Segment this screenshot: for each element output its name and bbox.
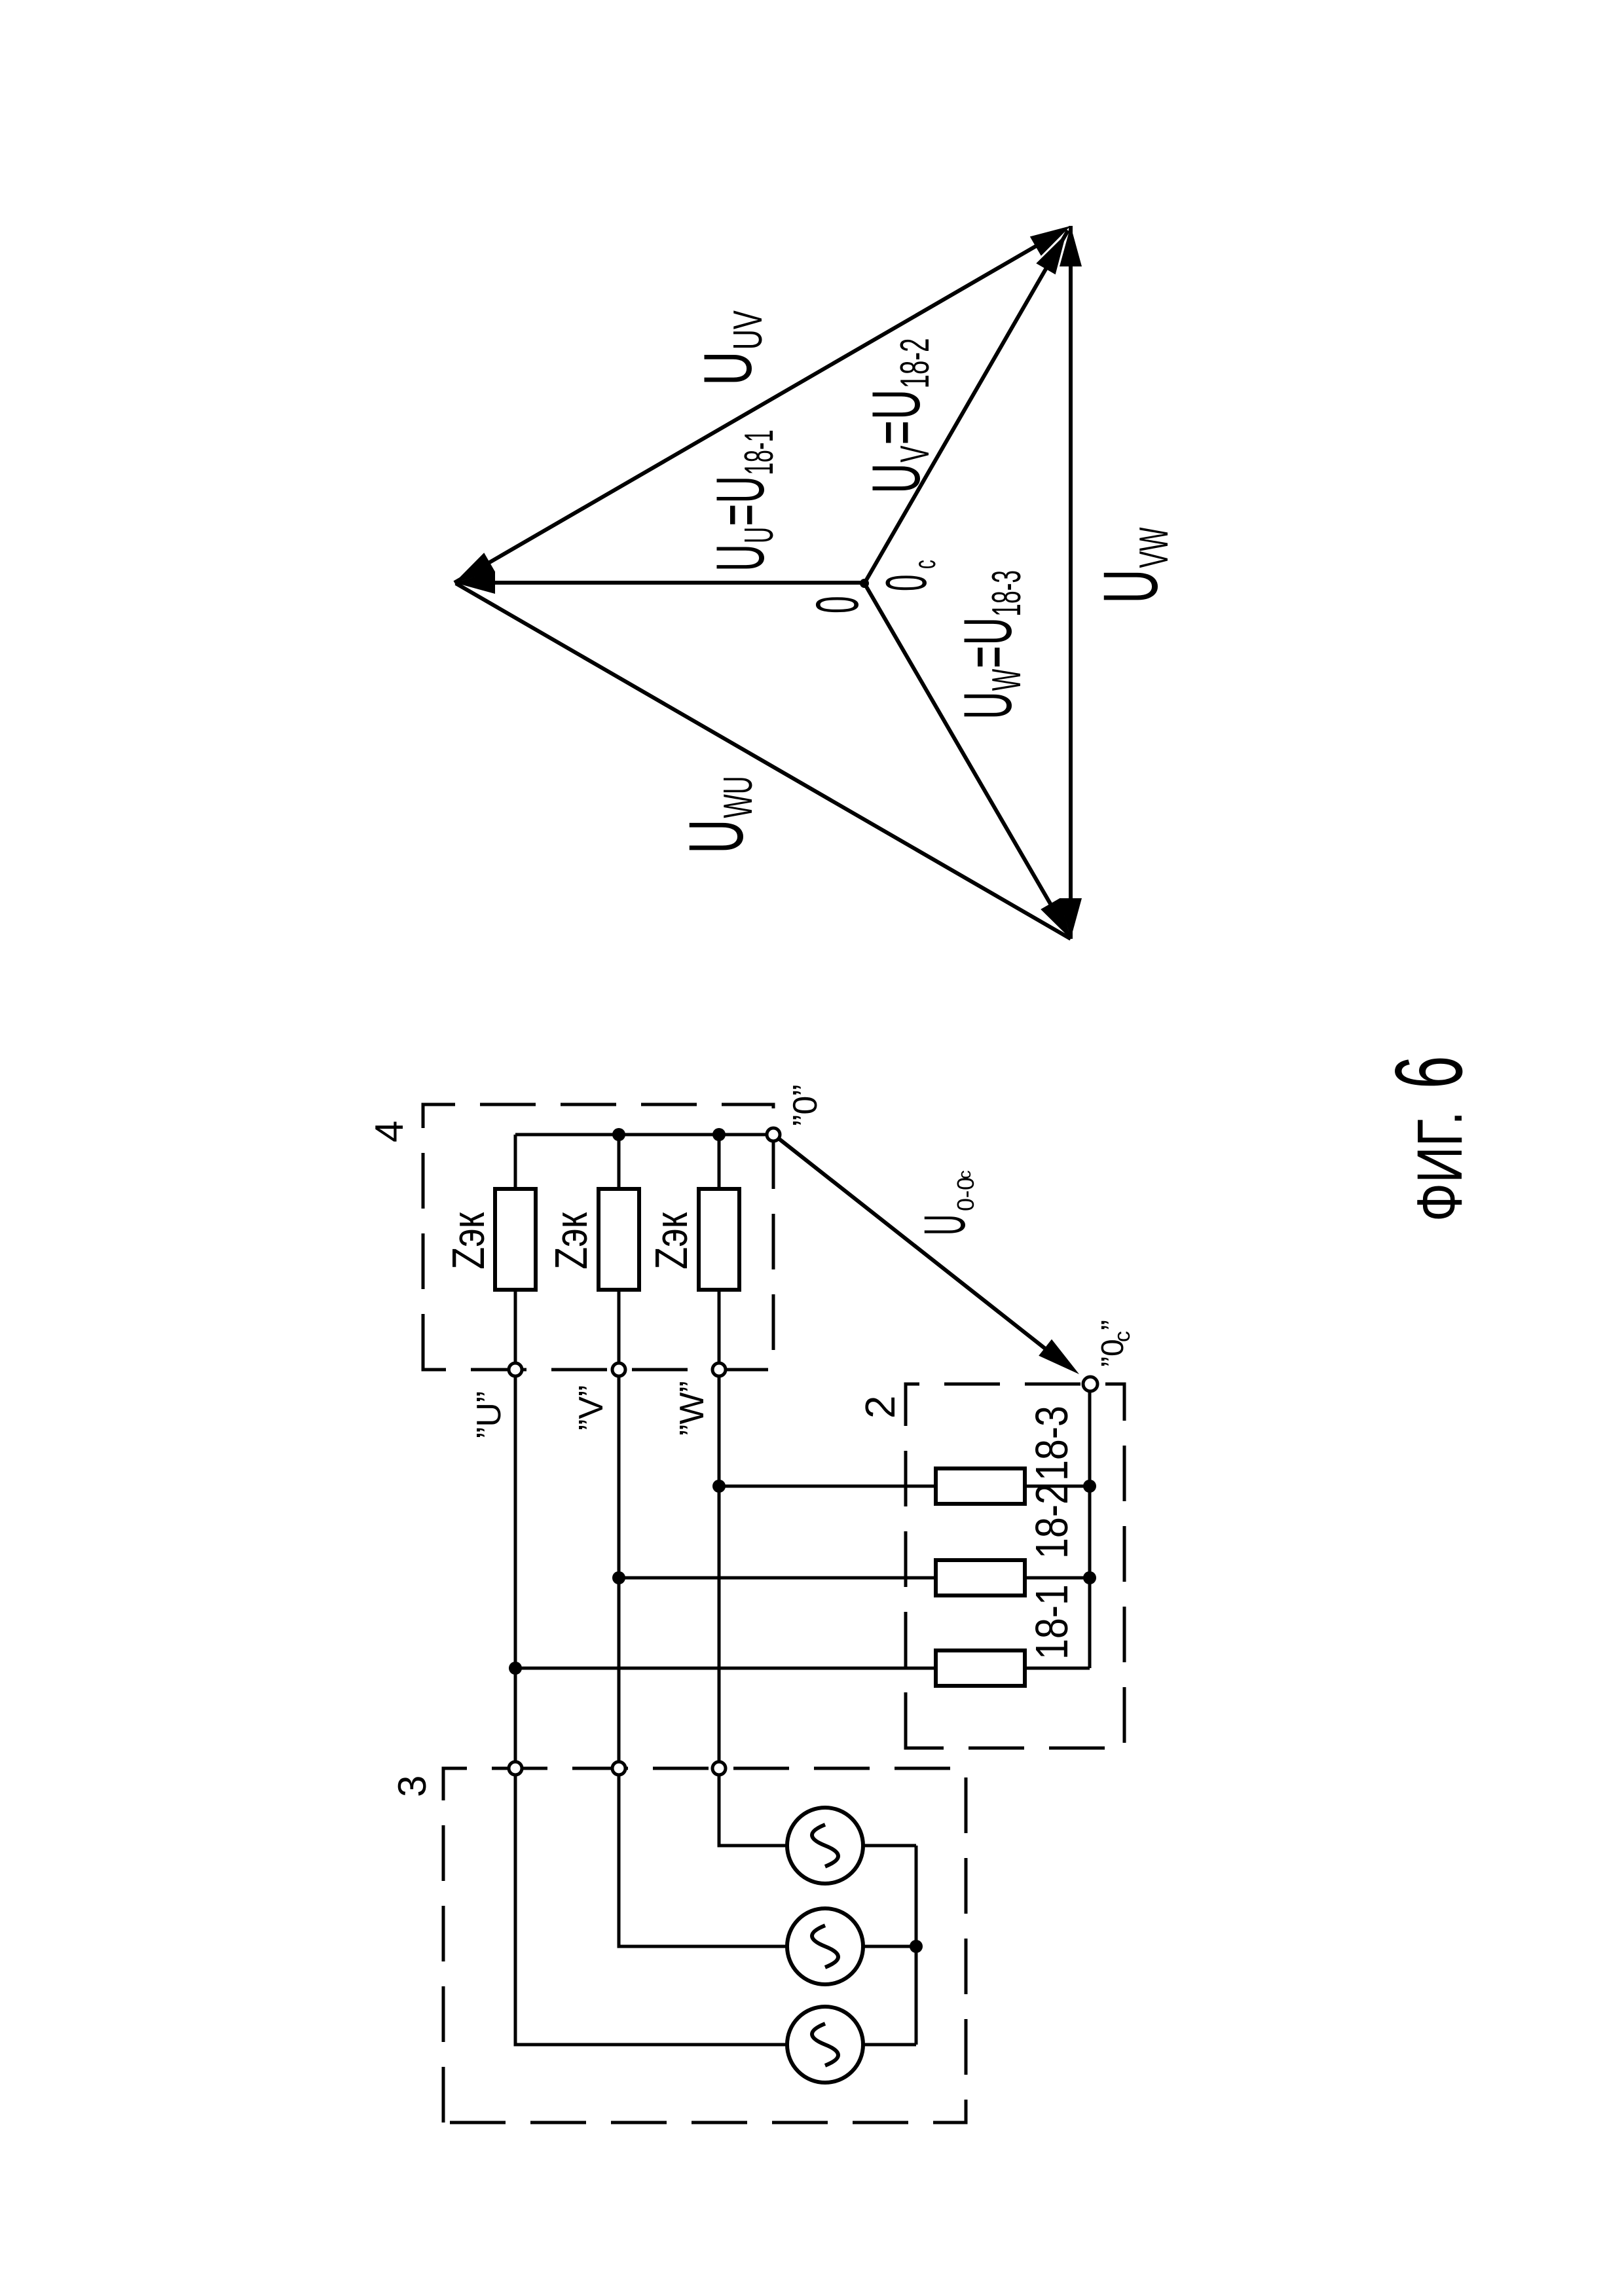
svg-text:U: U [949, 691, 1025, 720]
terminal "V" on box 4 [612, 1363, 625, 1376]
wire rail W [718, 1376, 721, 1762]
label Zek3 [646, 1212, 697, 1269]
svg-text:18-1: 18-1 [736, 429, 781, 475]
svg-text:6: 6 [1375, 1056, 1482, 1089]
svg-text:0: 0 [803, 596, 871, 613]
wire vector U_WU (C to A) [456, 583, 1071, 939]
wire source G1 to rail U [515, 1776, 787, 2045]
wire vector U_UV (A to B) [454, 230, 1064, 583]
node label 0 [803, 596, 871, 613]
wire neutral stub G2 [863, 1945, 916, 1948]
resistor 18-2 [936, 1560, 1025, 1595]
svg-text:c: c [955, 1171, 974, 1180]
resistor 18-1 [936, 1650, 1025, 1686]
resistor 18-3 [936, 1468, 1025, 1504]
wire neutral stub G3 [863, 1844, 916, 1848]
dashed box 4 (equivalent load block) [423, 1104, 773, 1370]
wire branch 18-1 upper [515, 1667, 936, 1670]
label U_UV [690, 310, 771, 386]
svg-text:WU: WU [715, 776, 761, 818]
terminal V on box 3 [612, 1762, 625, 1775]
svg-text:18-3: 18-3 [1026, 1406, 1078, 1481]
resistor Zek1 [495, 1189, 536, 1290]
junction bus-W [712, 1128, 726, 1141]
svg-text:U: U [912, 1214, 977, 1235]
svg-text:W: W [983, 668, 1029, 691]
wire neutral bus of source block [915, 1846, 918, 2045]
label 18-1 [1026, 1584, 1078, 1660]
AC source G3 (phase W) [787, 1808, 863, 1884]
svg-text:0: 0 [874, 575, 938, 591]
svg-text:U: U [702, 476, 778, 503]
wire branch 18-2 upper [619, 1576, 936, 1580]
wire device common bus [1088, 1390, 1092, 1668]
svg-text:Zэк: Zэк [646, 1212, 697, 1269]
node O (system neutral 0 / artificial neutral 0c) [860, 579, 869, 588]
svg-text:=: = [858, 420, 934, 445]
terminal "U" on box 4 [509, 1363, 522, 1376]
svg-text:”0: ”0 [1096, 1339, 1130, 1367]
svg-text:V: V [892, 445, 938, 462]
svg-text:U: U [736, 527, 781, 543]
wire source G2 to rail V [619, 1776, 787, 1946]
label U_W=U_18-3 [949, 570, 1029, 720]
svg-text:U: U [858, 463, 934, 494]
arrowhead of U_V at B [1036, 234, 1066, 274]
wire load neutral bus [515, 1133, 767, 1137]
terminal U on box 3 [509, 1762, 522, 1775]
svg-text:Zэк: Zэк [546, 1212, 597, 1269]
arrowhead of U_VW at C [1060, 898, 1082, 939]
wire vector U_U = U_18-1 (O to A) [458, 581, 864, 585]
svg-text:0-0: 0-0 [952, 1177, 979, 1211]
wire branch 18-2 lower [1025, 1576, 1090, 1580]
svg-text:VW: VW [1131, 527, 1177, 568]
svg-text:U: U [673, 819, 759, 854]
label 18-3 [1026, 1406, 1078, 1481]
svg-text:U: U [1087, 569, 1173, 604]
svg-text:2: 2 [857, 1395, 904, 1419]
svg-text:3: 3 [390, 1776, 434, 1797]
label U_U=U_18-1 [702, 429, 781, 572]
node "0c" terminal [1083, 1377, 1098, 1391]
arrowhead of U_UV at B [1030, 226, 1071, 256]
svg-text:U: U [949, 617, 1025, 646]
wire rail U [514, 1376, 517, 1762]
junction star point [910, 1940, 923, 1953]
label Zek2 [546, 1212, 597, 1269]
wire Zek3 to bus [718, 1135, 721, 1189]
wire terminal W to Zek3 [718, 1290, 721, 1363]
wire vector U_VW (C to B) [1069, 226, 1073, 939]
wire arrow U_0-0c [779, 1139, 1048, 1351]
wire Zek2 to bus [618, 1135, 621, 1189]
svg-text:=: = [949, 646, 1025, 668]
junction bus-V [612, 1128, 625, 1141]
wire Zek1 to bus [514, 1135, 517, 1189]
node "0" terminal [767, 1128, 780, 1141]
arrowhead U_0-0c [1039, 1339, 1079, 1374]
caption Fig.6 [1404, 1111, 1475, 1222]
svg-text:c: c [909, 560, 942, 569]
terminal "W" on box 4 [712, 1363, 726, 1376]
label Zek1 [443, 1212, 494, 1269]
svg-text:18-3: 18-3 [983, 570, 1029, 617]
label U_VW [1087, 527, 1176, 604]
svg-text:”0”: ”0” [786, 1084, 824, 1126]
svg-text:U: U [702, 544, 778, 572]
junction rail U / 18-1 [509, 1662, 522, 1675]
resistor Zek3 [699, 1189, 739, 1290]
svg-text:”U”: ”U” [470, 1391, 508, 1438]
arrowhead of U_W at C [1041, 898, 1071, 939]
label U_V=U_18-2 [858, 338, 937, 494]
terminal W on box 3 [712, 1762, 726, 1775]
wire terminal V to Zek2 [618, 1290, 621, 1363]
wire branch 18-3 upper [719, 1485, 936, 1488]
svg-text:U: U [690, 351, 766, 386]
label U_WU [673, 776, 760, 854]
junction bus2 18-3 [1083, 1480, 1096, 1493]
svg-text:18-2: 18-2 [892, 338, 938, 388]
wire vector U_V = U_18-2 (O to B) [864, 230, 1068, 583]
svg-text:=: = [702, 504, 778, 526]
svg-text:”W”: ”W” [673, 1381, 711, 1436]
arrowhead of U_VW at B [1060, 226, 1082, 266]
resistor Zek2 [599, 1189, 639, 1290]
junction rail W / 18-3 [712, 1480, 726, 1493]
svg-text:c: c [1110, 1331, 1135, 1342]
svg-text:U: U [858, 390, 934, 420]
wire vector U_W = U_18-3 (O to C) [864, 583, 1068, 934]
junction bus2 18-2 [1083, 1571, 1096, 1584]
dashed box 3 (three-phase source block) [443, 1768, 966, 2123]
svg-text:”: ” [1096, 1320, 1130, 1330]
AC source G2 (phase V) [787, 1908, 863, 1984]
svg-text:ФИГ.: ФИГ. [1404, 1111, 1475, 1222]
dashed box 2 (device block) [906, 1384, 1124, 1748]
wire terminal U to Zek1 [514, 1290, 517, 1363]
junction rail V / 18-2 [612, 1571, 625, 1584]
svg-text:UV: UV [726, 310, 771, 350]
svg-text:18-2: 18-2 [1026, 1484, 1078, 1559]
svg-text:4: 4 [367, 1121, 411, 1142]
label U_0-0c [912, 1214, 977, 1235]
svg-text:18-1: 18-1 [1026, 1584, 1078, 1660]
wire branch 18-3 lower [1025, 1485, 1090, 1488]
node label 0c [874, 575, 938, 591]
svg-text:”V”: ”V” [572, 1385, 610, 1430]
wire neutral stub G1 [863, 2043, 916, 2047]
label 18-2 [1026, 1484, 1078, 1559]
arrowhead of U_UV tail at A [454, 553, 495, 583]
arrowhead of U_U at A [454, 572, 495, 594]
wire rail V [618, 1376, 621, 1762]
wire source G3 to rail W [719, 1776, 787, 1846]
svg-text:Zэк: Zэк [443, 1212, 494, 1269]
AC source G1 (phase U) [787, 2007, 863, 2083]
wire branch 18-1 lower [1025, 1667, 1090, 1670]
